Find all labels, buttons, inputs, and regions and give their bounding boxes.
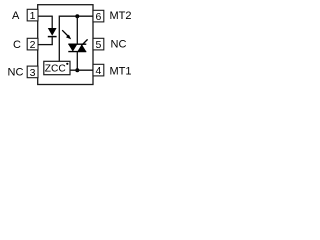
wire LED cathode to pin2 bbox=[38, 44, 53, 46]
light emission arrow bbox=[62, 30, 71, 39]
junction node at triac bottom bbox=[75, 68, 79, 72]
svg-text:2: 2 bbox=[30, 39, 36, 51]
svg-text:C: C bbox=[13, 39, 21, 51]
wire triac top stem bbox=[76, 16, 78, 44]
wire LED anode stem bbox=[51, 16, 53, 29]
pin 1 box bbox=[27, 9, 38, 22]
pin 4 box bbox=[93, 64, 104, 77]
junction node at triac top bbox=[75, 14, 79, 18]
svg-text:A: A bbox=[12, 10, 20, 22]
svg-text:NC: NC bbox=[8, 66, 24, 78]
pin 3 box bbox=[27, 66, 38, 79]
wire ZCC top to MT2 rail bbox=[59, 16, 93, 61]
IC body U1 bbox=[38, 5, 93, 85]
wire ZCC right to pin4 bbox=[70, 69, 93, 71]
svg-text:ZCC: ZCC bbox=[45, 64, 66, 75]
svg-text:5: 5 bbox=[95, 39, 101, 51]
wire LED cathode stem bbox=[51, 37, 53, 45]
ZCC zero-cross circuit box bbox=[44, 61, 70, 74]
svg-text:3: 3 bbox=[30, 67, 36, 79]
pin 2 box bbox=[27, 38, 38, 51]
svg-text:1: 1 bbox=[30, 10, 36, 22]
svg-text:MT1: MT1 bbox=[110, 66, 132, 78]
svg-text:4: 4 bbox=[95, 65, 101, 77]
LED D1 bbox=[48, 28, 57, 37]
svg-text:NC: NC bbox=[111, 39, 127, 51]
svg-text:MT2: MT2 bbox=[110, 10, 132, 22]
phototriac Q1 bbox=[68, 39, 87, 51]
wire triac bottom stem bbox=[76, 52, 78, 71]
wire pin1 to LED anode bbox=[38, 15, 52, 17]
svg-text:6: 6 bbox=[95, 11, 101, 23]
pin 6 box bbox=[93, 10, 104, 23]
pin 5 box bbox=[93, 38, 104, 51]
